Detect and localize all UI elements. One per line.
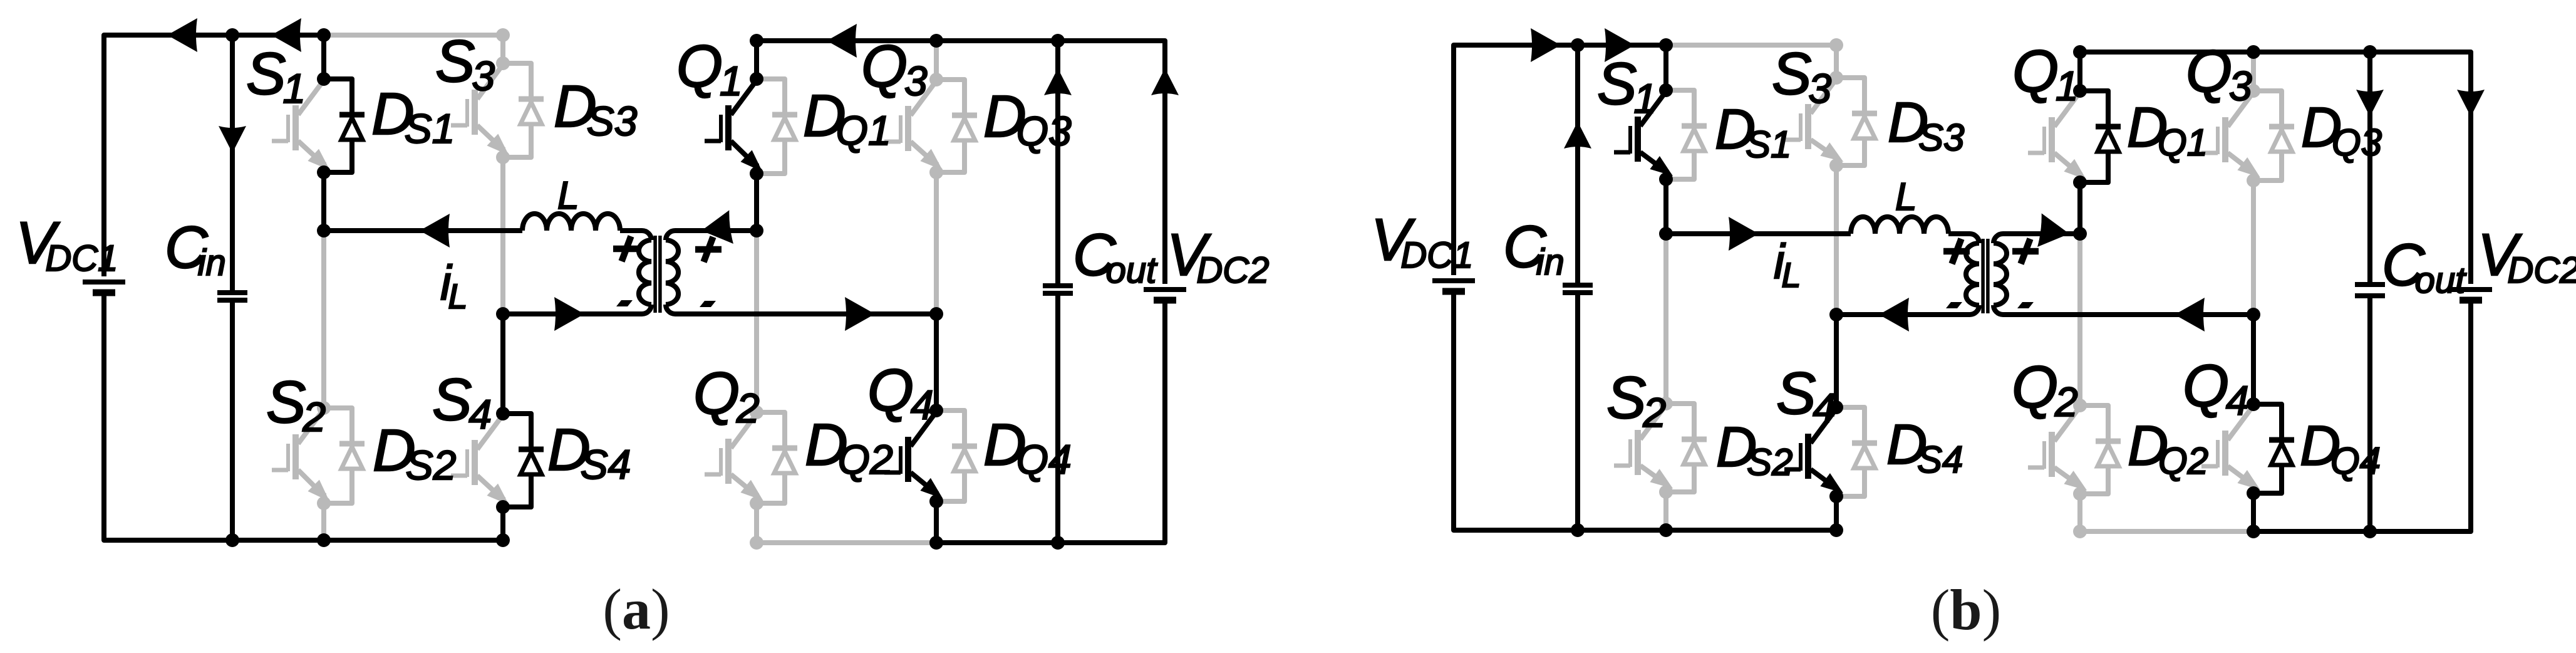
- node Q1 collector: [750, 72, 763, 86]
- diode DS3: [1836, 78, 1877, 165]
- transistor Q4: [2201, 405, 2265, 496]
- arrow current Cout up: [1044, 68, 1072, 95]
- node secondary phase B: [929, 307, 943, 321]
- label DQ4: [2300, 415, 2381, 482]
- label minus secondary: [2017, 302, 2034, 308]
- wire Cin leg upper: [1575, 45, 1580, 285]
- label plus primary: [613, 236, 639, 261]
- wire S4 leg top: [500, 314, 505, 414]
- node Q4 emitter: [2247, 486, 2260, 500]
- battery VDC1: [1432, 281, 1475, 291]
- label L: [1895, 175, 1916, 219]
- wire Q3 leg lower: [934, 172, 939, 314]
- diode DQ3: [2253, 91, 2294, 180]
- label Q3: [861, 33, 928, 104]
- wire S2 leg lower: [1663, 492, 1668, 530]
- wire S3 leg lower: [500, 157, 505, 314]
- node Cout bottom: [1051, 536, 1065, 550]
- node S1 collector: [1659, 83, 1673, 97]
- label iL: [440, 255, 468, 316]
- wire S4 leg bottom: [1834, 496, 1839, 530]
- diode DQ1: [2080, 91, 2121, 182]
- transistor S1: [272, 80, 336, 176]
- transistor Q1: [705, 80, 768, 177]
- wire bottom rail gray segment Q2-Q4: [757, 540, 936, 545]
- diode DQ4: [2253, 404, 2294, 493]
- node Q1 emitter: [2073, 175, 2087, 189]
- wire Q1 leg bottom: [754, 174, 759, 231]
- transistor Q1: [2028, 92, 2092, 186]
- transistor Q3: [884, 81, 948, 176]
- node S2 collector: [317, 401, 331, 415]
- wire S3 leg upper: [1834, 45, 1839, 78]
- diode DQ2: [2080, 405, 2121, 494]
- transistor Q4: [884, 412, 948, 505]
- label S1: [1597, 51, 1657, 122]
- wire S1 leg bottom: [321, 172, 326, 231]
- node Q4 collector: [2247, 397, 2260, 411]
- node Q3 top rail: [2247, 45, 2260, 59]
- diode DS3: [503, 63, 544, 157]
- wire Q1 leg top: [754, 41, 759, 79]
- label S2: [1606, 365, 1666, 436]
- wire Q4 leg bottom: [934, 501, 939, 543]
- wire bottom rail left VDC1 to S4: [1454, 295, 1836, 530]
- node S3 top rail junction: [496, 28, 510, 42]
- wire S1 leg bottom: [1663, 179, 1668, 234]
- label DQ1: [2127, 97, 2208, 164]
- label S3: [435, 28, 495, 99]
- transistor Q3: [2201, 92, 2265, 184]
- wire Q1 leg top: [2077, 52, 2082, 91]
- label VDC2: [2478, 222, 2576, 291]
- arrow current Cout down: [2356, 90, 2384, 117]
- node S2 emitter: [317, 496, 331, 510]
- wire top rail left VDC1 to S1: [104, 35, 324, 276]
- wire bottom rail left VDC1 to S4: [104, 296, 503, 540]
- arrow current top rail 2: [271, 18, 301, 52]
- label DS3: [554, 73, 638, 144]
- node S3 emitter: [1829, 159, 1843, 172]
- label plus secondary: [2012, 239, 2039, 264]
- label minus primary: [1946, 302, 1962, 308]
- node Cout top: [1051, 34, 1065, 48]
- label DS4: [1886, 414, 1963, 481]
- node Cout bottom: [2363, 525, 2377, 538]
- node secondary phase A: [2073, 227, 2087, 241]
- wire secondary bottom: [2003, 312, 2253, 317]
- node phase B: [496, 307, 510, 321]
- node S2 bottom rail: [317, 533, 331, 547]
- arrow current VDC2 up: [1151, 68, 1179, 95]
- node S4 collector: [1829, 400, 1843, 414]
- transistor S3: [1784, 79, 1848, 169]
- wire Cout leg upper: [2367, 52, 2372, 285]
- node Q3 top rail: [929, 34, 943, 48]
- node S3 collector: [1829, 71, 1843, 85]
- label DQ2: [2128, 415, 2208, 482]
- wire top rail left VDC1 to S1: [1454, 45, 1666, 275]
- inductor L: [522, 214, 620, 231]
- label plus secondary: [695, 237, 722, 262]
- label minus secondary: [700, 301, 716, 307]
- node phase A: [317, 224, 331, 238]
- label DS3: [1888, 91, 1964, 159]
- wire bottom rail right VDC2 to Q4: [936, 303, 1165, 543]
- label Q1: [676, 33, 743, 104]
- node S3 emitter: [496, 150, 510, 164]
- node Q4 bottom rail: [2247, 525, 2260, 538]
- label plus primary: [1943, 239, 1970, 264]
- wire Q4 leg top: [2251, 315, 2256, 404]
- node Q3 emitter: [929, 165, 943, 179]
- node S1 emitter: [317, 165, 331, 179]
- node Q1 emitter: [750, 167, 763, 180]
- arrow current iL: [420, 214, 450, 248]
- node Cout top: [2363, 45, 2377, 59]
- node secondary phase A: [750, 224, 763, 238]
- node S4 collector: [496, 407, 510, 421]
- node S4 emitter: [496, 500, 510, 514]
- label Q4: [867, 357, 934, 428]
- svg-text:(a): (a): [603, 577, 670, 641]
- wire S4 leg bottom: [500, 507, 505, 540]
- label Q1: [2012, 38, 2079, 109]
- wire phase A to inductor: [1666, 231, 1851, 236]
- transistor Q2: [2028, 407, 2092, 497]
- node S1 collector: [317, 72, 331, 86]
- wire Cin leg lower: [1575, 293, 1580, 530]
- wire S1 leg top: [321, 35, 326, 79]
- node Q2 collector: [2073, 399, 2087, 412]
- battery VDC1: [83, 282, 125, 293]
- node Q2 emitter: [750, 496, 763, 510]
- label DS2: [373, 417, 456, 488]
- node S1 top rail: [317, 28, 331, 42]
- wire top rail gray segment S1-S3: [324, 33, 503, 38]
- diode DS2: [1666, 404, 1707, 492]
- wire Cout leg lower: [2367, 296, 2372, 531]
- label S1: [246, 41, 306, 112]
- label iL: [1774, 234, 1801, 295]
- inductor L: [1851, 217, 1948, 234]
- node S1 emitter: [1659, 172, 1673, 186]
- wire phase A to inductor: [324, 228, 522, 233]
- diode DQ2: [757, 412, 797, 503]
- label DS2: [1716, 416, 1792, 483]
- wire bottom rail right VDC2 to Q4: [2253, 303, 2471, 531]
- wire Q4 leg top: [934, 314, 939, 410]
- wire Q2 leg lower: [754, 503, 759, 543]
- label DQ4: [983, 412, 1072, 483]
- capacitor Cin: [1563, 285, 1593, 293]
- capacitor Cout: [2355, 285, 2385, 296]
- node Cin top: [225, 28, 239, 42]
- arrow current primary bottom: [1879, 298, 1909, 332]
- label S2: [266, 369, 326, 440]
- label S4: [1776, 360, 1836, 431]
- node Cin bottom: [1571, 523, 1585, 537]
- label VDC2: [1167, 222, 1269, 291]
- diode DQ1: [757, 79, 797, 174]
- label Q2: [2012, 354, 2078, 425]
- node S4 bottom rail: [496, 533, 510, 547]
- capacitor Cin: [217, 293, 247, 300]
- arrow current Cin up: [1564, 122, 1591, 149]
- wire Q2 leg upper: [754, 231, 759, 412]
- label S4: [432, 367, 492, 437]
- label DQ3: [2301, 97, 2382, 164]
- transistor S1: [1614, 91, 1678, 182]
- node Q2 collector: [750, 405, 763, 419]
- wire S2 leg lower: [321, 503, 326, 540]
- node S2 collector: [1659, 397, 1673, 410]
- arrow current Cin down: [219, 126, 246, 153]
- wire top rail right Q1 to VDC2: [2080, 52, 2471, 284]
- wire Q3 leg lower: [2251, 180, 2256, 315]
- wire Cin leg upper: [230, 35, 235, 293]
- node S3 top rail junction: [1829, 38, 1843, 52]
- label VDC1: [1371, 207, 1473, 276]
- node Q4 collector: [929, 404, 943, 417]
- label Cout: [1073, 222, 1158, 291]
- diode DS4: [503, 414, 544, 507]
- wire S3 leg upper: [500, 35, 505, 63]
- wire Q3 leg upper: [2251, 52, 2256, 91]
- node Q1 top rail: [2073, 45, 2087, 59]
- diode DS1: [324, 79, 365, 172]
- arrow current top rail 1: [1531, 28, 1561, 62]
- node Q3 collector: [2247, 84, 2260, 98]
- node secondary phase B: [2247, 308, 2260, 321]
- label Q2: [693, 360, 760, 431]
- label DS1: [1715, 98, 1791, 165]
- arrow current secondary top: [700, 210, 733, 247]
- node S2 bottom rail: [1659, 523, 1673, 537]
- diode DQ3: [936, 80, 977, 172]
- node Cin bottom: [225, 533, 239, 547]
- node S2 emitter: [1659, 485, 1673, 499]
- label minus primary: [616, 300, 633, 306]
- wire top rail right Q1 to VDC2: [757, 41, 1165, 284]
- node Q4 bottom rail: [929, 536, 943, 550]
- wire Cin leg lower: [230, 300, 235, 540]
- arrow current top rail 3: [827, 24, 857, 58]
- wire secondary bottom: [675, 311, 936, 316]
- caption (b): [1931, 578, 2001, 642]
- node Q2 bottom rail junction: [750, 536, 763, 550]
- diode DS1: [1666, 90, 1707, 179]
- wire S2 leg upper: [321, 231, 326, 408]
- wire Q2 leg lower: [2077, 494, 2082, 531]
- node S3 collector: [496, 56, 510, 70]
- label DQ2: [805, 412, 893, 483]
- node Q2 bottom rail junction: [2073, 525, 2087, 538]
- wire Q3 leg upper: [934, 41, 939, 80]
- node Q3 emitter: [2247, 174, 2260, 187]
- wire Q2 leg upper: [2077, 234, 2082, 405]
- node Q4 emitter: [929, 494, 943, 508]
- transistor S2: [1614, 405, 1678, 495]
- transistor Q2: [705, 414, 768, 507]
- label DQ1: [803, 83, 891, 154]
- node phase A: [1659, 227, 1673, 241]
- battery VDC2: [1144, 290, 1186, 300]
- transistor S3: [451, 65, 514, 161]
- arrow current iL: [1729, 217, 1759, 251]
- wire top rail gray segment S1-S3: [1666, 43, 1836, 48]
- node Q1 top rail: [750, 34, 763, 48]
- wire Q4 leg bottom: [2251, 493, 2256, 531]
- label DS1: [371, 81, 455, 152]
- capacitor Cout: [1043, 286, 1073, 293]
- wire Q1 leg bottom: [2077, 182, 2082, 234]
- transformer T: [503, 231, 757, 314]
- arrow current top rail 1: [167, 18, 197, 52]
- transistor S2: [272, 409, 335, 507]
- diode DQ4: [936, 410, 977, 501]
- label Q3: [2186, 38, 2252, 109]
- node S4 bottom rail: [1829, 523, 1843, 537]
- node Q2 emitter: [2073, 487, 2087, 501]
- wire bottom rail gray segment Q2-Q4: [2080, 529, 2253, 534]
- node S4 emitter: [1829, 489, 1843, 503]
- wire S4 leg top: [1834, 315, 1839, 407]
- svg-text:(b): (b): [1931, 578, 2001, 642]
- diode DS4: [1836, 407, 1877, 496]
- wire Cout leg upper: [1055, 41, 1060, 286]
- arrow current primary bottom: [554, 297, 584, 331]
- node S1 top rail: [1659, 38, 1673, 52]
- transistor S4: [451, 415, 515, 511]
- node Q1 collector: [2073, 84, 2087, 98]
- wire Cout leg lower: [1055, 293, 1060, 543]
- wire S1 leg top: [1663, 45, 1668, 90]
- node phase B: [1829, 308, 1843, 321]
- node Cin top: [1571, 38, 1585, 52]
- arrow current secondary top: [2037, 213, 2071, 250]
- arrow current secondary bottom: [2175, 298, 2205, 332]
- label DQ3: [983, 83, 1072, 154]
- label DS4: [547, 417, 631, 488]
- label L: [557, 174, 579, 217]
- arrow current top rail 2: [1605, 28, 1635, 62]
- wire S2 leg upper: [1663, 234, 1668, 404]
- label Cout: [2382, 232, 2467, 301]
- arrow current VDC2 down: [2457, 90, 2485, 117]
- svg-text:L: L: [557, 174, 579, 217]
- svg-text:L: L: [1895, 175, 1916, 219]
- wire S3 leg lower: [1834, 165, 1839, 315]
- battery VDC2: [2449, 290, 2492, 300]
- label VDC1: [16, 210, 118, 279]
- label Cin: [165, 214, 226, 283]
- transistor S4: [1784, 409, 1848, 499]
- label Q4: [2183, 353, 2249, 424]
- node Q3 collector: [929, 73, 943, 86]
- diode DS2: [324, 408, 365, 503]
- label Cin: [1503, 214, 1565, 283]
- transformer T: [1836, 234, 2080, 315]
- arrow current secondary bottom: [845, 297, 875, 331]
- label S3: [1772, 41, 1831, 112]
- caption (a): [603, 577, 670, 641]
